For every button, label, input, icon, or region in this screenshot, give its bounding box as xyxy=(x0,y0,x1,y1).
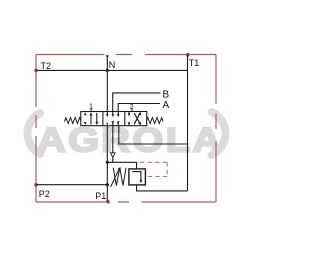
wire valve to junction xyxy=(112,126,114,163)
port dot P1 xyxy=(106,200,110,204)
svg-text:2: 2 xyxy=(130,104,134,111)
svg-text:P1: P1 xyxy=(95,191,106,201)
svg-text:AGROLA: AGROLA xyxy=(37,121,223,159)
svg-text:N: N xyxy=(109,60,116,70)
wire N vertical xyxy=(106,56,108,112)
wire T2-T1 top line xyxy=(36,69,188,71)
check valve open arrow xyxy=(111,153,116,158)
wire P vertical to P1 xyxy=(106,126,108,202)
port dot P2 xyxy=(34,183,38,187)
valve position tick 1 xyxy=(90,108,92,111)
valve box3 crossed arrows xyxy=(128,112,130,126)
wire A riser xyxy=(118,104,160,112)
watermark logo xyxy=(27,112,225,159)
node junction relief xyxy=(106,161,109,164)
relief valve arrow xyxy=(132,172,141,181)
red dash-dot frame xyxy=(36,55,216,203)
node junction N/T xyxy=(106,69,109,72)
node N top tick xyxy=(106,55,109,58)
svg-text:B: B xyxy=(163,90,170,101)
port dot T2 xyxy=(34,69,38,73)
wire P2 branch xyxy=(36,184,107,186)
valve position tick 2 xyxy=(131,108,133,111)
valve V1 body xyxy=(81,112,147,126)
wire T1 vertical xyxy=(187,55,189,191)
wire relief outlet xyxy=(137,185,188,191)
svg-text:1: 1 xyxy=(89,104,93,111)
wire B riser xyxy=(113,93,161,112)
svg-text:P2: P2 xyxy=(39,189,50,199)
relief valve RV1 body xyxy=(129,169,146,185)
spring right xyxy=(147,118,163,124)
port dot T1 xyxy=(186,53,190,57)
node junction P2 xyxy=(106,183,109,186)
valve box2 center symbols xyxy=(107,112,118,126)
svg-text:T1: T1 xyxy=(189,58,200,68)
pilot line dashed xyxy=(140,162,167,176)
svg-text:A: A xyxy=(163,100,170,111)
relief valve spring xyxy=(113,168,126,186)
valve box1 arrows xyxy=(84,112,87,124)
spring left xyxy=(64,118,80,124)
svg-text:T2: T2 xyxy=(41,61,52,71)
wire valve tank return xyxy=(119,126,188,144)
relief valve adjust arrow xyxy=(111,169,120,187)
wire relief inlet xyxy=(107,162,136,169)
